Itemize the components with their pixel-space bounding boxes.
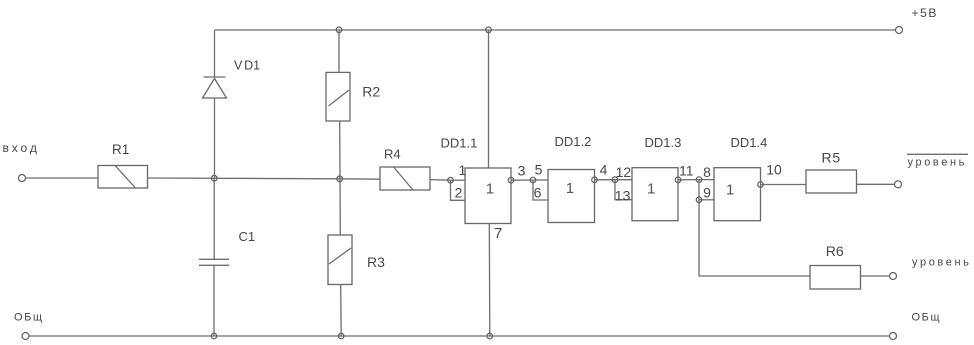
svg-text:13: 13	[615, 188, 631, 204]
wire DD1.2 pin 4 to node E	[595, 179, 616, 181]
svg-text:1: 1	[566, 180, 574, 197]
wire DD1.1 pin 7 to bottom rail	[488, 224, 491, 337]
svg-text:R4: R4	[384, 147, 401, 162]
logic gate DD1.2	[548, 170, 595, 223]
net label уровень inverted (with overline)	[907, 154, 968, 168]
node DD1.3 output junction	[675, 177, 681, 183]
svg-text:2: 2	[455, 185, 463, 201]
node DD1.1 output junction	[508, 177, 514, 183]
wire VD1 branch vertical upper	[214, 30, 216, 77]
svg-text:1: 1	[486, 181, 494, 198]
node G junction	[696, 197, 702, 203]
svg-text:6: 6	[534, 185, 542, 201]
node D junction	[530, 177, 536, 183]
wire node G to DD1.4 pin 9	[699, 199, 714, 201]
svg-text:DD1.3: DD1.3	[645, 135, 682, 150]
svg-text:уровень: уровень	[908, 157, 967, 169]
svg-text:10: 10	[766, 162, 782, 178]
top rail junction at DD1 power	[486, 27, 492, 33]
terminal input	[19, 175, 26, 182]
node DD1.4 output junction	[758, 182, 764, 188]
svg-text:9: 9	[703, 185, 711, 201]
wire top rail to DD1.1 power pin	[488, 30, 490, 168]
svg-text:DD1.2: DD1.2	[555, 134, 592, 149]
terminal level output	[890, 273, 897, 280]
wire node B to R4	[340, 178, 381, 180]
wire stub DD1.3 pin 13	[615, 180, 632, 200]
svg-text:ОБщ: ОБщ	[14, 312, 44, 324]
bottom rail junction at C1	[211, 333, 217, 339]
wire top rail to R2	[338, 30, 340, 73]
top rail junction at R2	[336, 27, 342, 33]
svg-text:5: 5	[535, 162, 543, 178]
svg-text:ОБщ: ОБщ	[912, 312, 942, 324]
svg-text:1: 1	[459, 162, 467, 178]
svg-text:уровень: уровень	[912, 257, 971, 269]
svg-text:DD1.4: DD1.4	[731, 135, 768, 150]
op-amp U1: logic gate DD1.1	[465, 168, 511, 224]
node DD1.2 output junction	[592, 177, 598, 183]
wire C1 to bottom rail	[213, 265, 215, 336]
node A junction	[211, 175, 217, 181]
resistor R6	[810, 266, 861, 290]
wire stub DD1.1 pin 2	[451, 180, 466, 200]
logic gate DD1.4	[714, 168, 761, 221]
wire stub DD1.2 pin 6	[533, 180, 548, 200]
svg-text:3: 3	[518, 163, 526, 179]
wire bottom common rail	[26, 335, 890, 337]
wire node A to C1	[213, 178, 215, 259]
wire DD1.4 pin 10 to R5	[761, 184, 807, 186]
svg-text:1: 1	[647, 181, 655, 198]
wire node F down to node G	[698, 180, 700, 200]
resistor R4	[380, 167, 430, 190]
diode VD1	[203, 77, 227, 98]
wire input to R1	[26, 177, 99, 179]
svg-text:+5В: +5В	[912, 6, 939, 20]
wire node B to R3	[339, 179, 341, 235]
node B junction	[337, 176, 343, 182]
svg-text:12: 12	[616, 164, 632, 180]
svg-text:R5: R5	[822, 150, 842, 166]
terminal +5V	[896, 27, 903, 34]
svg-text:VD1: VD1	[234, 59, 260, 73]
svg-text:11: 11	[679, 163, 694, 179]
svg-text:R3: R3	[367, 254, 385, 270]
svg-text:R2: R2	[362, 83, 380, 99]
svg-text:7: 7	[494, 225, 502, 242]
wire R3 to bottom rail	[340, 285, 343, 336]
svg-text:R6: R6	[826, 243, 844, 259]
wire R1 to node B	[148, 177, 340, 180]
wire R5 to output terminal	[857, 183, 895, 185]
svg-text:4: 4	[600, 162, 608, 178]
wire R4 to node C	[430, 179, 451, 182]
wire node G down to R6	[699, 200, 810, 276]
svg-text:вход: вход	[3, 141, 40, 155]
resistor R5	[806, 170, 857, 193]
resistor R2	[326, 72, 350, 121]
wire top +5V rail	[215, 29, 896, 31]
svg-text:DD1.1: DD1.1	[441, 136, 478, 151]
bottom rail junction at R3	[338, 333, 344, 339]
wire node F to DD1.4 pin 8	[699, 179, 714, 181]
node E junction	[612, 177, 618, 183]
wire R6 to output terminal	[861, 275, 890, 277]
terminal common left	[22, 333, 29, 340]
capacitor C1	[199, 259, 229, 265]
svg-text:8: 8	[703, 164, 711, 180]
wire node C to DD1.1 pin 1	[451, 179, 466, 181]
resistor R3	[328, 235, 352, 285]
logic gate DD1.3	[632, 168, 678, 221]
wire DD1.3 pin 11 to node F	[678, 179, 699, 181]
wire VD1 to node A	[214, 98, 216, 178]
svg-text:C1: C1	[239, 229, 256, 244]
node F junction	[696, 177, 702, 183]
terminal level inverted output	[895, 181, 902, 188]
wire DD1.1 pin 3 to node D	[511, 179, 533, 181]
wire node E to DD1.3 pin 12	[615, 179, 632, 181]
wire R2 to node B	[339, 121, 341, 179]
bottom rail junction at DD1 pin7	[487, 333, 493, 339]
node C junction	[448, 177, 454, 183]
terminal common right	[890, 333, 897, 340]
svg-text:R1: R1	[112, 142, 129, 157]
wire node D to DD1.2 pin 5	[533, 179, 548, 181]
svg-text:1: 1	[726, 182, 734, 199]
resistor R1	[98, 166, 148, 189]
